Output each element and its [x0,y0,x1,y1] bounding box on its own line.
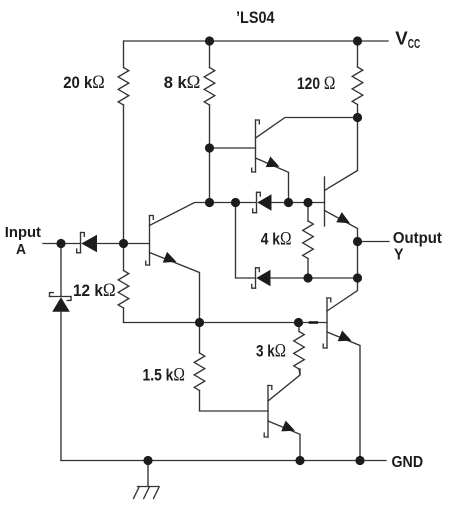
transistor Q1 (schottky input) [149,216,151,266]
svg-text:V: V [395,29,408,49]
wire: Input lead [43,243,81,245]
node: row / D4 branch [231,198,240,207]
resistor R6 1.5 kOhm [199,323,201,354]
wire: Q4 emitter to GND [327,332,360,461]
wire: 20k column down to input node [123,105,125,244]
node: 120 Ohm bottom [353,113,362,122]
wire: dark dash on Q4 base line [309,321,318,324]
svg-text:A: A [16,241,26,258]
node: rail / 120 Ohm (VCC) [353,36,362,45]
wire: clamp anode down to GND rail [60,312,62,461]
wire: Q3 emitter down to output node [325,211,358,242]
svg-text:Y: Y [394,247,404,264]
node: output Y [353,237,362,246]
node: 8k / Q2 base [205,143,214,152]
wire: Q2 collector to 120 Ohm node [256,118,358,139]
node: GND / ground symbol [143,456,152,465]
diode D3 schottky (middle row) [256,192,258,212]
svg-text:20 kΩ: 20 kΩ [63,73,104,93]
svg-text:12 kΩ: 12 kΩ [73,281,116,301]
wire: Q4 collector from output column [327,278,358,311]
node: D4 anode / 4k bottom [303,273,312,282]
node: GND / Q4 emitter [355,456,364,465]
wire: Q1 collector to row [150,203,257,226]
wire: 8k column down to Q1 collector row [209,105,211,203]
svg-text:’LS04: ’LS04 [236,9,275,27]
svg-text:3 kΩ: 3 kΩ [256,342,286,362]
svg-text:4 kΩ: 4 kΩ [261,230,292,250]
node: 4k top [303,198,312,207]
wire: branch down from row to D4 [236,203,256,279]
node: rail / 8k [205,36,214,45]
resistor R2 8 kOhm [209,41,211,68]
svg-text:120 Ω: 120 Ω [297,74,335,94]
node: Q1 collector / 8k [205,198,214,207]
transistor Q2 (schottky, upper middle) [255,120,257,172]
node: input / clamp [56,239,65,248]
wire: output column down [357,242,359,279]
wire: Q1 emitter diagonal [150,253,200,323]
wire: input clamp branch down [60,244,62,297]
wire: Q5 emitter to GND [268,421,300,461]
transistor Q3 (upper output, plain npn) [324,177,326,226]
wire: Q2 emitter [256,158,289,203]
ground symbol [147,461,149,487]
node: Q4 base / 3k top [294,318,303,327]
wire: D1 anode to Q1 base [97,243,150,245]
node: output column / D4 row [353,273,362,282]
diode D1 schottky (input series) [80,233,82,253]
svg-text:8 kΩ: 8 kΩ [164,73,201,93]
node: input / 20k-12k [119,239,128,248]
resistor R5 12 kOhm [123,244,125,271]
svg-text:GND: GND [392,454,424,471]
resistor R7 3 kOhm [298,323,300,332]
transistor Q4 (schottky pulldown) [326,298,328,348]
diode D2 schottky input clamp [50,296,72,298]
node: 12k row / 1.5k / Q1 emitter [195,318,204,327]
wire: top VCC rail [124,40,388,42]
svg-text:CC: CC [408,36,420,51]
wire: D4 anode row to output column [271,277,358,279]
wire: D3 anode to Q3 base [272,202,325,204]
wire: output node lead [358,241,390,243]
svg-text:1.5 kΩ: 1.5 kΩ [143,365,186,385]
wire: Q3 collector up to 120 Ohm node [325,118,358,191]
wire: GND rail [61,460,386,462]
node: GND / Q5 emitter [295,456,304,465]
wire: Q2 base from 8k node [210,147,256,149]
node: Q2 emitter junction [284,198,293,207]
transistor Q5 (schottky bottom) [267,386,269,438]
resistor R1 20 kOhm [123,41,125,68]
resistor R3 120 Ohm [357,41,359,67]
svg-text:Input: Input [5,224,41,241]
svg-text:Output: Output [393,230,442,247]
wire: 12k bottom row to Q4 base [124,322,328,324]
resistor R4 4 kOhm [307,203,309,222]
wire: Q5 collector up to 3k [268,369,300,401]
diode D4 schottky (lower) [255,268,257,288]
